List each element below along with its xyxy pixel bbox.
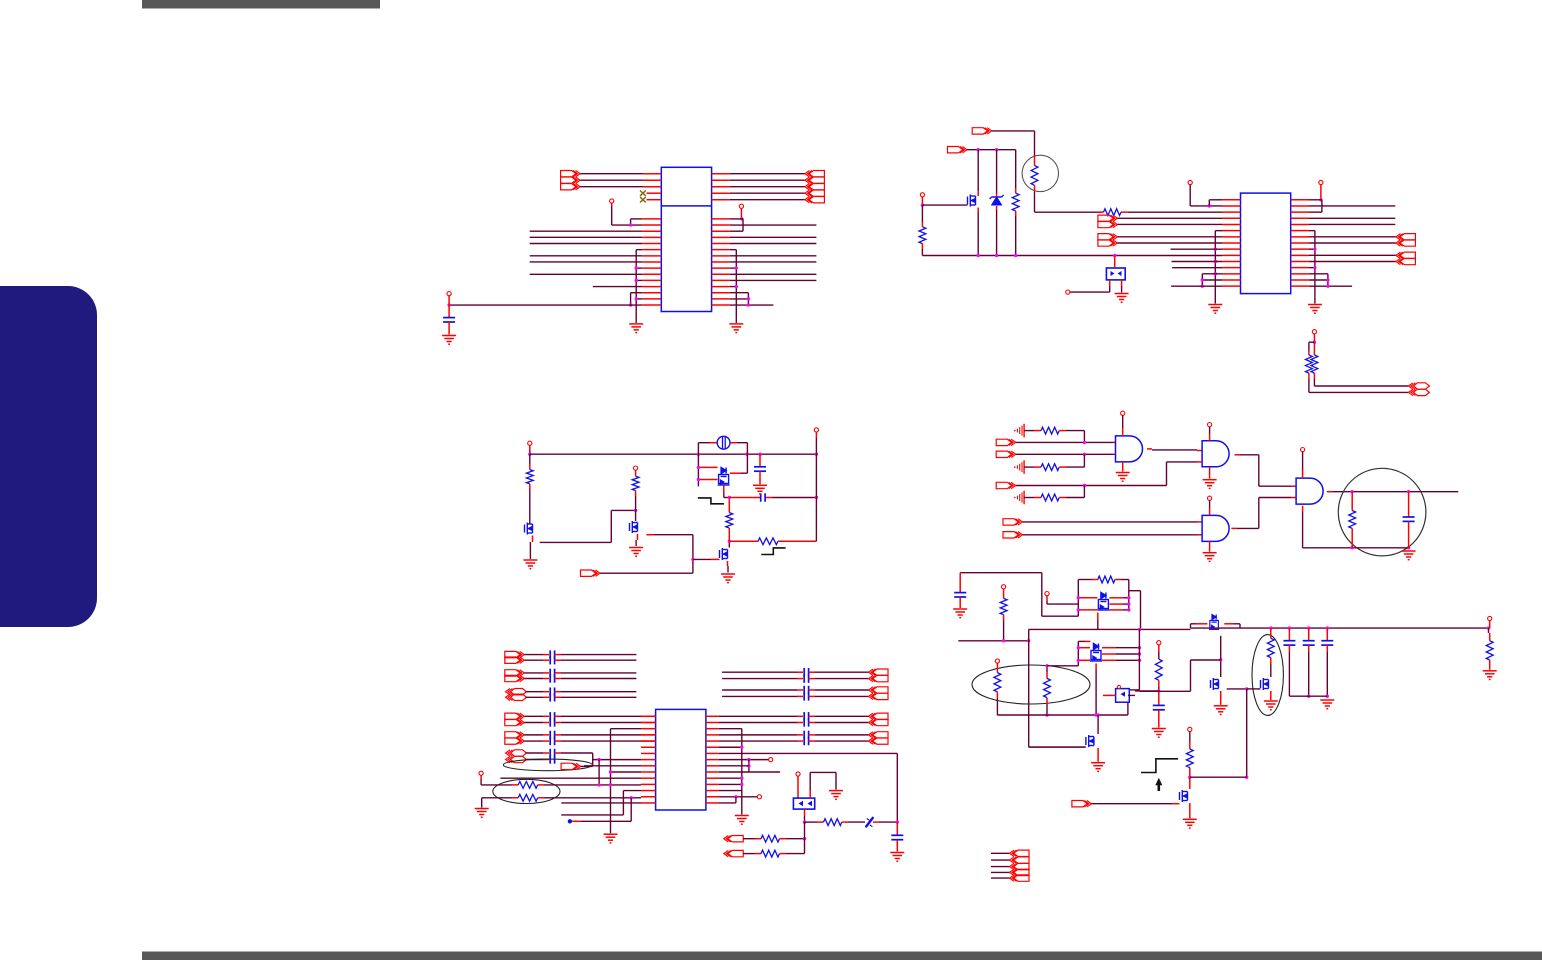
wire U4 row10 stub (719, 771, 780, 773)
wire U3D output net (1327, 490, 1458, 493)
wire R22 top (1047, 665, 1078, 667)
fet cluster Q7 frame (1078, 576, 1140, 629)
wire D2 to ground G18 (810, 772, 836, 790)
transistor Q11 (sync fet) (1211, 658, 1223, 690)
wire U1 left row8 (530, 261, 643, 263)
right cap rows + connector J23 (722, 668, 888, 683)
wire U1 right row7 (730, 255, 817, 257)
wire U2 left row12 (1172, 267, 1222, 269)
connector J15 (input) (1003, 532, 1023, 538)
wires J5 to U2 rows4-5 (1117, 218, 1222, 224)
wire Q11 gate net (1227, 687, 1249, 690)
resistor R11 row (1024, 427, 1085, 442)
wire U2 right row14 (1309, 278, 1330, 281)
ground G26 (Q13) (1183, 803, 1197, 828)
ground G22 (Q11) (1214, 691, 1228, 715)
wire U2 left row14 jog (1201, 274, 1222, 288)
connector J1 (3-wire off-page, U1 top-left) (561, 171, 662, 190)
connector J27 (input) (724, 836, 744, 842)
connector J5 (2-wire) (1098, 215, 1118, 228)
rising edge symbol 2 (761, 548, 785, 555)
capacitor C4 (1403, 492, 1415, 548)
connector J16 group + caps C5,C6 (505, 650, 637, 664)
wire U2 left row15 (1171, 285, 1222, 287)
highlight ellipse E1 (503, 759, 592, 771)
resistor R7 (526, 454, 533, 524)
wire U1 left row4 (530, 236, 643, 238)
connector J18 hex group + caps C9,C10 (506, 688, 637, 702)
connector J29 (input) (1072, 801, 1092, 807)
transistor Q1 (968, 195, 976, 207)
wire U1 right row4 (730, 236, 817, 238)
connector J3 (input) (972, 128, 992, 134)
wire TP19 to Q7 (1047, 596, 1078, 604)
transistor Q4 (630, 510, 638, 540)
transistor Q13 gate chain vertical (1245, 689, 1248, 779)
resistor R19 row (743, 822, 804, 857)
connector J7 (2-wire) (1396, 234, 1416, 247)
wire U1 right row8 (730, 261, 817, 263)
wires U2 rows7-8 to J7 (1309, 237, 1396, 243)
wire Q8 drain to Q11 (1139, 636, 1220, 692)
test point TP20 (995, 659, 999, 663)
capacitor C1 (443, 296, 455, 335)
right gnd bus of U1 (730, 250, 750, 323)
capacitor C19 (1153, 691, 1165, 728)
test point TP23 (1188, 727, 1192, 731)
test point TP1 (610, 199, 614, 203)
wire Q14 gate (1029, 746, 1086, 748)
ground G23 (Q12) (1264, 691, 1278, 710)
right gnd bus of U4 (719, 729, 744, 815)
test point TP4 (920, 193, 924, 197)
U4 rows4-5 caps + connector J26 (719, 731, 888, 746)
wire right column net (815, 432, 817, 541)
wire top z-net (960, 573, 1078, 617)
connector J6 (2-wire) (1098, 234, 1118, 247)
ground G18 (829, 791, 843, 800)
connector J17 group + caps C7,C8 (505, 669, 637, 683)
diode pack D2 (793, 776, 814, 809)
connector J30 (5-wire) (991, 850, 1029, 881)
wire U4 row15 jog (719, 797, 736, 803)
U1 right pins (712, 219, 730, 305)
wire W1 to node D (873, 820, 899, 823)
wire U3C out to U3D in2 (1231, 498, 1296, 529)
resistor R3 (919, 205, 926, 255)
wire gate drive vertical (1029, 629, 1085, 747)
wire J12 to U3A in2 (1016, 453, 1116, 468)
ground G14 (C4) (1402, 551, 1416, 560)
wire U1 left row7 (530, 255, 643, 257)
mosfet Q10 (small pack) (1116, 685, 1130, 702)
jumper W1 (866, 818, 873, 827)
power symbol P2 (1014, 460, 1024, 474)
wire R23 left (1135, 690, 1159, 692)
resistor R24 (1267, 628, 1274, 677)
test point TP9 (528, 441, 532, 445)
wire U1 right row11 (730, 279, 817, 281)
U4 rows1-2 caps + connector J25 (719, 712, 888, 727)
resistor R12 row (1024, 464, 1085, 471)
transistor Q13 (1180, 777, 1190, 802)
resistor R13 row (1024, 494, 1085, 501)
wire U4 row7 long (719, 753, 897, 822)
wire TP7 to U2 right row1 (1319, 185, 1322, 202)
transistor Q3 (525, 523, 533, 543)
highlight ellipse E2 (493, 779, 560, 803)
ground G3 (U1 right bus) (729, 324, 743, 333)
connector J4 (input) (948, 147, 968, 153)
wire R26 to Q13 chain (1190, 776, 1247, 778)
connector J22 (in ellipse) (561, 763, 581, 769)
wire U3A out to U3B (1147, 449, 1202, 451)
wire under-IC row a (561, 814, 623, 816)
wire U2 right row15 (1309, 284, 1352, 287)
fuse F1 (717, 436, 730, 449)
diode D1 (zener) (990, 195, 1004, 205)
wire J10 to Q5 gate (600, 559, 720, 573)
wire gate chain top (611, 509, 637, 512)
arrow up (black) (1155, 778, 1162, 791)
ground G2 (C1) (442, 336, 456, 345)
resistor R26 (1186, 732, 1193, 779)
ground G1 (U1 left bus) (629, 324, 643, 333)
resistor R17 row (805, 819, 866, 826)
U4 left pins (641, 716, 656, 803)
wire J14 to U3C in1 (1023, 521, 1203, 523)
wire Q5 drain to node B (728, 540, 731, 548)
ic U1 body (661, 167, 711, 311)
wire U1 left row5 (530, 243, 643, 245)
power symbol P3 (1014, 491, 1024, 505)
connector J11 (input) (996, 439, 1016, 445)
connector J20 group + caps C13,C14 to U4 (505, 731, 656, 746)
wire U1 left row3 (530, 230, 643, 232)
and-gate U3C (1202, 515, 1229, 541)
ground G19 (C17) (890, 853, 904, 862)
ground G9 (Q5) (721, 566, 735, 583)
wire U4 left row10 (609, 770, 641, 773)
transistor Q12 (1247, 678, 1269, 690)
ground G27 (Q14) (1091, 748, 1105, 771)
test point TP14 (U3C vcc) (1208, 496, 1212, 515)
wire U4 row8 test point (719, 758, 773, 762)
wire Q3 to gate chain (540, 510, 612, 542)
resistor R22 (1044, 664, 1051, 717)
ground G4 (Q2) (1115, 286, 1129, 302)
test point TP8 (1312, 330, 1316, 334)
wire R6 to J9a (1314, 385, 1408, 387)
no-connect X pins U1 (640, 191, 661, 203)
right gnd bus of U2 (1309, 231, 1317, 304)
wire Q1 source (977, 208, 979, 255)
rail net E (958, 639, 1030, 642)
wire J15 to U3C in2 (1023, 534, 1203, 536)
resistor R1 (1031, 156, 1038, 192)
wire U3D bottom rail (1303, 506, 1411, 550)
capacitor C18 (954, 573, 966, 608)
wire U2 right row2 (1309, 205, 1395, 207)
mosfet Q9 (dual with diode) (1090, 644, 1102, 662)
ground G17 (U4 right bus) (735, 816, 749, 825)
resistor R15 row (481, 775, 641, 788)
wire U2 left row9 (1171, 248, 1223, 250)
wire J22 to bus (581, 753, 593, 766)
wire R1 to U2 row3 (1035, 192, 1102, 213)
wires J6 to U2 rows7-8 (1117, 237, 1222, 243)
ground G15 (U4 left bus) (604, 834, 618, 843)
wire U4 rows8-10 vertical (719, 760, 751, 772)
U4 right pins (706, 716, 719, 803)
wire U4 left row11 long (500, 777, 641, 779)
ground G13 (U3C) (1203, 541, 1217, 561)
ground G11 (U3A) (1116, 462, 1130, 481)
connector J19 group + caps C11,C12 to U4 (505, 712, 656, 727)
test point TP12 (U3A vcc) (1121, 411, 1125, 436)
ic U4 body (656, 709, 706, 810)
resistor R2 (inline) (1098, 209, 1128, 216)
test point TP2 (447, 292, 451, 296)
wire U4 row14 test point (719, 795, 762, 799)
resistor R23 (1155, 645, 1162, 693)
rail net VOUT (1240, 626, 1490, 629)
test point TP13 (U3B vcc) (1208, 423, 1212, 441)
wire Q7 tail to rail (1097, 613, 1099, 630)
connector J10 (input) (581, 570, 601, 576)
test point TP11 (814, 428, 818, 432)
wire under-IC row b (581, 798, 632, 822)
resistor R4 (1012, 150, 1019, 256)
resistor R21 (994, 663, 1001, 715)
wire Q9 tail (1095, 664, 1097, 716)
bottom footer bar (142, 952, 1542, 961)
wire U2 left row1 jog (1209, 200, 1222, 206)
test point TP19 (1045, 592, 1049, 596)
transistor Q5 (720, 548, 728, 566)
resistor R25 (1486, 621, 1493, 670)
wire U1 left row1 jog (629, 219, 642, 227)
wire U2 left row11 (1172, 261, 1223, 263)
wire U2 right row4 (1309, 217, 1395, 219)
wires Q6 pins (697, 466, 748, 493)
ground G7 (Q3) (523, 542, 537, 569)
rail net SW (1029, 628, 1191, 631)
test point TP10 (634, 466, 638, 470)
wire TP6 to U2 row2 (1190, 185, 1222, 208)
capacitor C3 (754, 454, 766, 484)
ic U2 body (1241, 193, 1291, 294)
rising edge symbol 3 (1141, 759, 1178, 773)
connector J8 (2-wire) (1396, 252, 1416, 265)
resistor R8 (632, 470, 639, 510)
wire U3B out to U3D in1 (1235, 455, 1297, 486)
wire J3 to R1 (992, 131, 1035, 156)
ground G21 (C19) (1152, 729, 1166, 738)
wire U1 right row10 (730, 273, 817, 275)
U2 right pins (1291, 200, 1309, 286)
resistor R20 (1000, 589, 1007, 641)
connector J2 (5-wire off-page, U1 top-right) (712, 171, 825, 203)
fet cluster Q9 frame (1078, 641, 1090, 665)
ground G20 (C18) (953, 609, 967, 618)
power symbol P1 (1014, 424, 1024, 438)
wire TP8 node (1309, 334, 1316, 344)
transistor Q14 (1086, 715, 1098, 747)
ground G24 (caps) (1320, 700, 1334, 709)
wire D1 to rail (996, 206, 998, 256)
wire U4 left row3 bus (611, 729, 642, 834)
ground G10 (C3) (753, 485, 767, 494)
wire Q10 left (1103, 695, 1135, 715)
wire Q2 to TP5 (1070, 286, 1110, 292)
rail net A (530, 453, 818, 456)
and-gate U3B (1202, 441, 1229, 467)
left gnd bus of U1 (629, 250, 642, 323)
and-gate U3A (1116, 436, 1143, 462)
wire TP3 to U1 right row1 (740, 208, 743, 220)
wire Q4 drain (646, 535, 694, 574)
wire Q9 right bus (1129, 629, 1139, 690)
wire TP1 to U1 pin row2 (612, 203, 643, 225)
wire Q1 drain drop (977, 150, 979, 196)
wire U1 left row10 (530, 273, 643, 275)
rail net VIN (922, 254, 1222, 257)
wire U4 left row15 (561, 802, 641, 804)
ground G25 (R25) (1483, 671, 1497, 680)
wire U1 left row15 long (447, 303, 642, 306)
wire U4 left row8 (593, 758, 641, 761)
wire U2 right row13 jog (1309, 274, 1328, 286)
wire U2 right row5 (1309, 223, 1395, 225)
test point TP15 (U3D vcc) (1301, 448, 1305, 479)
test point TP3 (739, 204, 743, 208)
test point TP22 (1488, 616, 1492, 620)
wire U1 right row1-row3 jog (730, 219, 743, 231)
highlight circle around R1 (1022, 155, 1058, 191)
connector J13 (input) (996, 482, 1016, 488)
highlight circle around R14/C4 (1338, 468, 1426, 556)
test point TP7 (1319, 180, 1323, 184)
connector J14 (input) (1003, 519, 1023, 525)
capacitor C17 (891, 822, 903, 851)
test point TP16 (479, 771, 483, 775)
ground G16 (R16) (475, 798, 489, 817)
resistor R16 row (482, 794, 641, 801)
fuse F1 loop (698, 443, 747, 487)
highlight ellipse E3 (972, 665, 1090, 704)
wire U1 left row12 (593, 286, 643, 288)
connector J12 (input) (996, 451, 1016, 457)
wire D2 bottom node (803, 809, 806, 824)
wire U4 left row9 (584, 760, 641, 785)
wire R2 to U2 (1128, 211, 1222, 213)
wire U2 right row1-row3 jog (1309, 200, 1322, 212)
wire J29 to Q13 gate (1091, 803, 1179, 805)
wires U2 rows10-11 to J8 (1309, 255, 1396, 261)
mosfet Q7 (dual with diode) (1097, 593, 1109, 611)
and-gate U3D (1296, 478, 1323, 504)
test point TP6 (1188, 180, 1192, 184)
wire R5 to J9b (1309, 391, 1409, 393)
wire U1 right row5 (730, 243, 817, 245)
resistor R6 (1311, 342, 1318, 386)
wire Q6 drain node C (724, 493, 731, 499)
connector J21 hex group + caps C15,C16 (506, 749, 593, 764)
wires Q9 pins (1077, 646, 1142, 662)
ground G5 (U2 left) (1208, 305, 1222, 314)
wires Q7 pins (1077, 596, 1131, 612)
capacitor C20 (1283, 628, 1295, 696)
left gnd bus of U2 (1214, 231, 1222, 304)
test point TP18 (1002, 585, 1006, 589)
resistor R14 (1349, 492, 1356, 548)
test point TP17 (796, 772, 800, 776)
right cap rows + connector J24 (722, 686, 888, 701)
connector J9 (2-wire hex) (1408, 383, 1429, 396)
mosfet Q8 (high side) (1191, 615, 1241, 630)
node C row with C2 (729, 493, 818, 501)
capacitor C21 (1303, 628, 1315, 698)
wire TP9 drop (528, 445, 531, 456)
falling edge symbol (698, 498, 724, 504)
rail net F (bottom) (997, 713, 1128, 716)
test point TP5 (1066, 290, 1070, 294)
wire U4 left row13 jog (623, 791, 641, 815)
capacitor C22 (1321, 628, 1333, 698)
resistor R18 row (743, 835, 806, 842)
node stub (blue) (568, 819, 581, 823)
wire U2 left row13 (1202, 273, 1222, 275)
top header bar (142, 0, 380, 9)
left navy side tab (0, 286, 97, 627)
resistor R5 (1306, 342, 1313, 392)
node B row with R9 (729, 538, 816, 545)
U2 left pins (1222, 200, 1241, 286)
wire cap bottom rail (1289, 695, 1327, 697)
ground G6 (U2 right) (1308, 305, 1322, 314)
wire D1 column (996, 150, 998, 197)
highlight ellipse E4 (1252, 635, 1283, 716)
dual mosfet pack Q2 (1106, 256, 1125, 287)
wire U1 right row15 (730, 303, 774, 306)
wire U1 right row2 (730, 224, 817, 226)
wire TP4 to Q1 gate (921, 197, 968, 207)
U1 left pins (642, 219, 661, 305)
ground G12 (U3B) (1203, 467, 1217, 489)
wire J4 rail (967, 148, 1016, 151)
mosfet Q6 (with body diode) (718, 468, 730, 486)
ground G8 (Q4) (629, 540, 643, 556)
connector J28 (input) (724, 850, 744, 856)
resistor R10 (726, 498, 733, 542)
test point TP21 (1157, 641, 1161, 645)
wire J13 to U3B in2 (1016, 462, 1202, 498)
wire J11 to U3A in1 (1016, 441, 1116, 444)
